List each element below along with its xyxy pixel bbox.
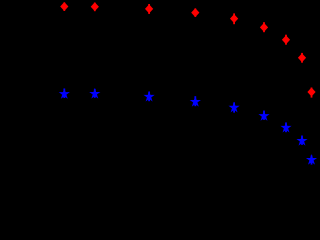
red series point 9: error bar + diamond marker xyxy=(308,88,315,98)
blue series point 2: error bar + star marker xyxy=(91,89,99,98)
red series point 1: error bar + diamond marker xyxy=(61,2,68,11)
blue series point 1: error bar + star marker xyxy=(60,89,68,99)
blue series point 9: error bar + star marker xyxy=(307,155,315,164)
red series point 3: error bar + diamond marker xyxy=(146,4,153,14)
blue series point 8: error bar + star marker xyxy=(298,136,306,145)
red series point 8: error bar + diamond marker xyxy=(299,53,306,63)
blue series point 4: error bar + star marker xyxy=(191,96,199,106)
blue series point 6: error bar + star marker xyxy=(260,111,268,120)
blue series point 3: error bar + star marker xyxy=(145,92,153,102)
red series point 2: error bar + diamond marker xyxy=(91,3,98,12)
blue series point 7: error bar + star marker xyxy=(282,123,290,133)
red series point 4: error bar + diamond marker xyxy=(192,8,199,17)
red series point 7: error bar + diamond marker xyxy=(283,35,290,45)
blue series point 5: error bar + star marker xyxy=(230,102,238,112)
red series point 5: error bar + diamond marker xyxy=(231,13,238,24)
red series point 6: error bar + diamond marker xyxy=(261,22,268,32)
